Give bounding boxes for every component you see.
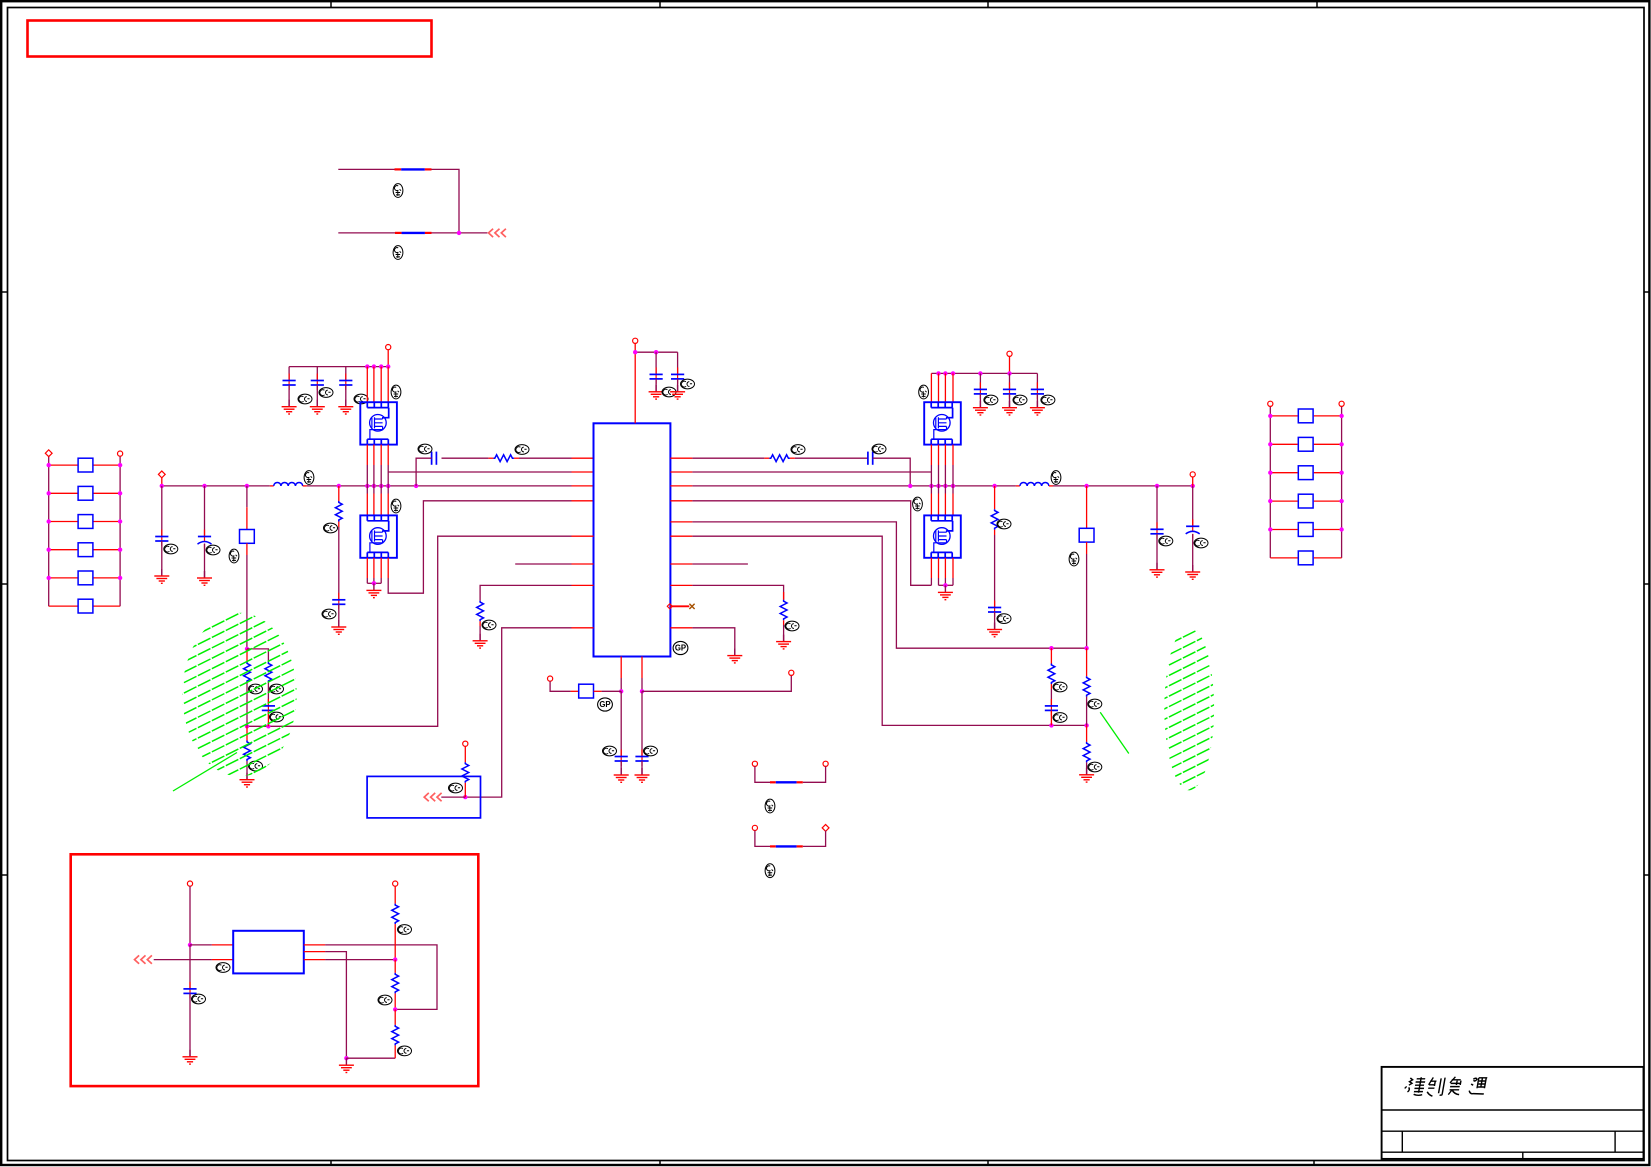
label C7 [1053, 713, 1067, 723]
title block outer box [1382, 1067, 1644, 1159]
wire IC y500.8 phase to Q4 source [692, 501, 931, 586]
wire net top bead circuit upper [338, 168, 394, 170]
capacitor C23 gate rail left [345, 367, 347, 381]
resistor R8 [462, 762, 469, 783]
jumper bracket 2 terminal circle [752, 825, 757, 830]
wire R12 to C14 [442, 457, 489, 459]
title block divider B [1614, 1131, 1616, 1152]
label R5 [1088, 762, 1102, 772]
label Q2 [391, 499, 401, 513]
left ladder junction dots row 5 [47, 576, 51, 580]
highlight ellipse left (green hatch) [170, 422, 310, 856]
label Q4 [913, 497, 923, 511]
wire Q1 pin4 to IC pin (y472) [388, 471, 571, 473]
label FB2 [393, 246, 403, 260]
wire IC y536.2 down-right net [692, 536, 1086, 725]
pin stub IC left y536.2 [572, 535, 594, 537]
wires Q1 bottom to Q2 top verticals [366, 445, 368, 465]
wire R16 to ground node [394, 1045, 396, 1058]
terminal circle VCC above IC [633, 338, 638, 343]
wire IC left y627.8 to off-page [465, 628, 571, 797]
ground C21 [282, 400, 297, 414]
frame zone tick top 2 [659, 1, 661, 7]
wire C8 to net [267, 710, 269, 726]
terminal circle sense left [548, 676, 553, 681]
label R8 [449, 783, 463, 793]
left ladder junction dots row 1 [47, 463, 51, 467]
wire C3 to right bus junction [873, 458, 911, 486]
off-page connector chevrons bottom-left [424, 793, 441, 801]
frame zone tick left 2 [1, 583, 7, 585]
label R3 [1053, 682, 1067, 692]
right ladder row 5 wire [1270, 529, 1297, 531]
label R10 [270, 684, 284, 694]
label FB3 [765, 799, 775, 813]
junction top bead circuit [457, 231, 461, 235]
wire terminal to R8 [464, 746, 466, 762]
ground tie bar Q4 [939, 584, 954, 586]
terminal circle gate-driver rail right [1007, 351, 1012, 356]
off-page group box (blue) [367, 776, 480, 818]
wire VIN down [189, 886, 191, 945]
terminal circle sense right [789, 670, 794, 675]
ground Q2 [366, 583, 381, 597]
left ladder junction dots row 2 [47, 491, 51, 495]
wire F1 down to divider [246, 555, 248, 649]
label C1 [662, 387, 676, 397]
ground pin y627.8 [727, 649, 742, 663]
wire right bus segment 1 [692, 485, 1016, 487]
wire pin1 to C9 [620, 691, 622, 756]
junction divider 2 [393, 1007, 397, 1011]
frame zone tick right 2 [1644, 583, 1650, 585]
resistor R14 [392, 904, 399, 925]
capacitor C8 [267, 699, 269, 710]
pin stub IC right y458 [670, 457, 692, 459]
wires Q2 bottom pins to ground tie [366, 558, 368, 578]
right ladder component box 3 [1298, 466, 1313, 480]
wire terminal to VCC node [634, 343, 636, 352]
label R12 [515, 445, 529, 455]
wire Q4 source pin1 down to phase [930, 558, 932, 578]
terminal circle VIN regulator [187, 881, 192, 886]
resistor R13 divider to ground [246, 726, 248, 740]
pin stub IC right y564 dangling [670, 563, 692, 565]
resistor R1 series right [764, 457, 769, 459]
label C14 [418, 444, 432, 454]
wire IC left y585.4 to R7 [480, 585, 571, 600]
ground Q4 [938, 585, 953, 599]
wire R5 to ground [1086, 762, 1088, 774]
left ladder row 3 wire [49, 521, 78, 523]
junction divider mid [393, 957, 397, 961]
inductor L2 right bus [1016, 485, 1020, 487]
pin stub IC right y521.9 [670, 521, 692, 523]
resistor R7 to ground [477, 601, 484, 622]
right ladder rail A [1269, 404, 1271, 558]
pin stub IC right y500.8 [670, 500, 692, 502]
wire terminal to left bus [161, 477, 163, 486]
wire Q1 pin4 vertical and gate branch to IC [387, 445, 389, 465]
label R16 [398, 1046, 412, 1056]
label FB1 [393, 184, 403, 198]
right ladder row 6 wire [1270, 557, 1297, 559]
left ladder component box 4 [78, 543, 93, 557]
label C12 [206, 545, 220, 555]
junction dots gate rail right [936, 371, 940, 375]
off-page connector chevrons top [489, 229, 506, 237]
inductor L1 left bus [270, 485, 274, 487]
terminal circle gate-driver rail left [386, 345, 391, 350]
wire divider right branch top [247, 649, 268, 662]
wire U2 out pin2 to ground node [304, 951, 325, 953]
pin stub IC right y536.2 [670, 535, 692, 537]
wire left bus segment 1 [162, 485, 270, 487]
wire C7 to net [1050, 710, 1052, 725]
ferrite bead FB1 [395, 168, 402, 170]
terminal circle divider top [393, 881, 398, 886]
transistor Q1 upper-left MOSFET [360, 402, 397, 444]
ground C15 [183, 1050, 198, 1064]
label GP below F3 [598, 698, 613, 711]
right ladder junction dots row 1 [1268, 414, 1272, 418]
frame zone tick left 1 [1, 291, 7, 293]
wires rail to Q1 top pins [366, 367, 368, 403]
left ladder row 1 wire [49, 464, 78, 466]
pin stub IC left y627.8 [572, 627, 594, 629]
wire C14 to left bus junction [416, 458, 432, 486]
IC bottom pin 2 wire [641, 657, 643, 679]
resistor R10 divider right branch [265, 662, 272, 683]
right ladder component box 4 [1298, 494, 1313, 508]
svg-text:GP: GP [599, 700, 610, 709]
wire VIN node to C15 [189, 945, 191, 989]
title block bottom strip divider [1522, 1152, 1524, 1159]
junction dots y648 net [1049, 646, 1053, 650]
ground C4 [987, 623, 1002, 637]
IC top pin wire to VCC [634, 352, 636, 423]
resistor R5 to ground [1086, 725, 1088, 742]
wire R11 to C13 [338, 527, 340, 600]
terminal circle R8 pull-up [463, 741, 468, 746]
capacitor C31 gate rail right [979, 373, 981, 389]
wire F3 to pin1 junction [602, 690, 622, 692]
label C22 [319, 388, 333, 398]
pin stub IC right y627.8 [670, 627, 692, 629]
wire terminal to rail left [387, 350, 389, 367]
frame zone tick right 1 [1644, 291, 1650, 293]
transistor Q4 lower-right MOSFET [924, 515, 961, 557]
fuse/bead F2 right bus branch [1086, 486, 1088, 528]
capacitor C5 right bus [1156, 486, 1158, 529]
right ladder component box 5 [1298, 523, 1313, 537]
label GP inside IC bottom-right [673, 641, 688, 654]
wire IC to R12 [519, 457, 572, 459]
ground C31 [973, 401, 988, 415]
fuse/bead F3 [571, 690, 579, 692]
junction dots VCC node [633, 350, 637, 354]
label R4 [1088, 699, 1102, 709]
left ladder rail A [48, 453, 50, 606]
frame zone tick top 1 [330, 1, 332, 7]
frame zone tick left 3 [1, 874, 7, 876]
ground R7 [473, 634, 488, 648]
resistor R6 to ground [783, 592, 785, 600]
wire left bus segment 2 [307, 485, 572, 487]
wire IC y472 to Q3 vertical [692, 471, 931, 473]
highlight ellipse right (green hatch) [1155, 543, 1225, 838]
junction IC bottom pin1 [619, 689, 623, 693]
capacitor C4 [994, 601, 996, 612]
title block line 2 [1382, 1130, 1644, 1132]
frame zone tick top 4 [1316, 1, 1318, 7]
wire R14 to mid junction [394, 924, 396, 960]
label C6 [1194, 538, 1208, 548]
capacitor C10 [641, 750, 643, 761]
label C15 [192, 994, 206, 1004]
ground C23 [338, 400, 353, 414]
label C9 [603, 746, 617, 756]
capacitor C3 series right [867, 452, 869, 465]
left ladder row 6 wire [49, 605, 78, 607]
junction ground node U2 [344, 1056, 348, 1060]
capacitor C12 left bus polarized [204, 486, 206, 537]
junction dots gate rail left [365, 364, 369, 368]
junction VIN node [188, 943, 192, 947]
terminal circle right bus VCC [1190, 472, 1195, 477]
left ladder component box 2 [78, 486, 93, 500]
label Q3 [919, 385, 929, 399]
ground C33 [1030, 401, 1045, 415]
capacitor C1 VCC [655, 352, 657, 374]
ground C1 [649, 385, 664, 399]
wire IC y521.9 down-right net [692, 522, 1086, 648]
wire R7 to ground [479, 626, 481, 641]
label R9 [249, 684, 263, 694]
terminal circle right ladder rail B [1339, 401, 1344, 406]
ground C32 [1002, 401, 1017, 415]
pin stub IC left y585.4 [572, 584, 594, 586]
junction IC bottom pin2 [640, 689, 644, 693]
junction dots right bus [908, 484, 912, 488]
green pointer line left [173, 753, 237, 792]
label R7 [482, 620, 496, 630]
capacitor C22 gate rail left [316, 367, 318, 381]
frame zone tick bottom 1 [330, 1161, 332, 1166]
right ladder component box 6 [1298, 551, 1313, 565]
wire R2 to C4 [994, 535, 996, 608]
IC U1 main controller body [594, 423, 671, 656]
label C10 [644, 746, 658, 756]
wire gate rail left [289, 366, 388, 368]
left ladder row 5 wire [49, 577, 78, 579]
frame zone tick bottom 2 [659, 1161, 661, 1166]
terminal circle left ladder rail B [118, 451, 123, 456]
wire Q2 source pin4 S-bend to IC pin (y500.8) [387, 558, 389, 578]
resistor R3 between nets [1050, 648, 1052, 663]
wire right bus segment 2 [1053, 485, 1193, 487]
junction off-page net [463, 795, 467, 799]
resistor R12 series left [514, 457, 519, 459]
wire R8 to junction [464, 783, 466, 797]
left ladder junction dots row 3 [47, 519, 51, 523]
fuse/bead F1 left bus branch [246, 486, 248, 507]
wire chevrons to U2 pin2 [135, 955, 152, 963]
ground C10 [635, 768, 650, 782]
label R6 [785, 621, 799, 631]
ground C13 [331, 620, 346, 634]
wire U2 out pin1 to feedback top [304, 944, 325, 946]
wire IC left y536.2 long net to divider [247, 536, 572, 726]
terminal diamond left ladder rail A [45, 450, 52, 457]
pin stub IC right y585.4 [670, 584, 692, 586]
label C11 [164, 544, 178, 554]
regulator section box (red) [71, 854, 479, 1086]
junction Q2 ground tie [372, 581, 376, 585]
junction dots y726 net [266, 724, 270, 728]
capacitor C32 gate rail right [1009, 373, 1011, 389]
left ladder junction dots row 4 [47, 548, 51, 552]
right ladder junction dots row 4 [1268, 499, 1272, 503]
note box (empty red rectangle top-left) [28, 21, 432, 57]
wire gate rail right [931, 372, 1037, 374]
terminal diamond left bus VCC [158, 471, 165, 478]
label C4 [997, 614, 1011, 624]
wire R6 to ground [783, 625, 785, 642]
title block line 3 [1382, 1151, 1644, 1153]
wires Q3 bottom to Q4 top verticals [930, 445, 932, 465]
left ladder component box 3 [78, 515, 93, 529]
left ladder component box 5 [78, 571, 93, 585]
pin stub IC right bus y486 [670, 485, 692, 487]
ground C11 [154, 569, 169, 583]
wire VIN node to U2 pin1 [190, 944, 212, 946]
wire IC to R1 right [692, 457, 764, 459]
ferrite bead FB3 [770, 781, 776, 783]
wire net top bead circuit lower right [432, 232, 488, 234]
wire R10 to C8 [267, 683, 269, 706]
label R13 [249, 761, 263, 771]
green pointer line right [1100, 712, 1129, 753]
resistor R16 [394, 1009, 396, 1025]
transistor Q3 upper-right MOSFET [924, 402, 961, 444]
junction Q4 ground tie [943, 583, 947, 587]
frame zone tick bottom 3 [987, 1161, 989, 1166]
terminal circle right ladder rail A [1268, 401, 1273, 406]
wire IC y627.8 to ground [692, 628, 734, 656]
label C21 [298, 394, 312, 404]
capacitor C15 [189, 982, 191, 993]
wire U2 out pin3 to divider mid [304, 959, 325, 961]
wire net top bead circuit lower [338, 232, 395, 234]
left ladder rail B [119, 454, 121, 607]
label L1 [304, 471, 314, 485]
junction divider top [245, 647, 249, 651]
label C33 [1041, 395, 1055, 405]
title block divider A [1401, 1131, 1403, 1152]
wire terminal to rail right [1009, 356, 1011, 373]
label C13 [322, 609, 336, 619]
ground R6 [776, 635, 791, 649]
resistor R11 left bus to ground chain [338, 486, 340, 501]
frame zone tick right 3 [1644, 874, 1650, 876]
left ladder component box 6 [78, 599, 93, 613]
label R2 [997, 519, 1011, 529]
label C5 [1159, 536, 1173, 546]
ground C5 [1150, 563, 1165, 577]
capacitor C21 gate rail left [288, 367, 290, 381]
capacitor C7 [1050, 699, 1052, 710]
wire junction to chevrons [441, 796, 465, 798]
capacitor C2 VCC [677, 352, 679, 374]
pin stub IC right y472 [670, 471, 692, 473]
label FB4 [765, 864, 775, 878]
capacitor C13 [338, 593, 340, 604]
right ladder junction dots row 5 [1268, 527, 1272, 531]
ground C22 [310, 400, 325, 414]
label F2 [1069, 552, 1079, 566]
wire R15 to junction 2 [394, 993, 396, 1009]
right ladder row 4 wire [1270, 500, 1297, 502]
jumper bracket 2 wires [755, 831, 770, 847]
right ladder component box 1 [1298, 409, 1313, 423]
wire R1 to C3 [795, 457, 868, 459]
wire IC y585.4 to R6 [692, 585, 783, 599]
right ladder row 3 wire [1270, 472, 1297, 474]
wire ground node to divider bottom [346, 1057, 395, 1059]
wire F2 down [1086, 554, 1088, 648]
label Q1 [391, 385, 401, 399]
ground C2 [670, 385, 685, 399]
ferrite bead FB4 [770, 845, 776, 847]
company logo text (CJK strokes) [1403, 1077, 1487, 1096]
ground tie bar Q2 [367, 582, 381, 584]
jumper bracket 1 wires [755, 766, 770, 782]
label U2 [216, 963, 230, 973]
junction dots y725 net [1049, 723, 1053, 727]
ground R5 [1079, 768, 1094, 782]
capacitor C11 left bus [161, 486, 163, 537]
capacitor C6 right bus polarized [1192, 486, 1194, 526]
wire terminal down and right to F3 [550, 681, 571, 691]
jumper bracket 1 terminals [752, 761, 757, 766]
right ladder row 2 wire [1270, 443, 1297, 445]
frame zone tick bottom 4 [1313, 1161, 1315, 1166]
jumper bracket 2 terminal diamond [822, 825, 829, 832]
label R15 [378, 995, 392, 1005]
right ladder rail B [1341, 404, 1343, 558]
right ladder component box 2 [1298, 437, 1313, 451]
label C23 [354, 394, 368, 404]
ground U2 [339, 1058, 354, 1072]
label C32 [1013, 395, 1027, 405]
wire R13 to ground [246, 761, 248, 780]
title block line 1 [1382, 1109, 1644, 1111]
left ladder row 4 wire [49, 549, 78, 551]
ground R13 [240, 773, 255, 787]
label R1 [791, 445, 805, 455]
capacitor C33 gate rail right [1036, 373, 1038, 389]
capacitor C9 [620, 750, 622, 761]
wire pin2 junction to terminal right [642, 675, 791, 691]
pin stub IC left y458 [572, 457, 594, 459]
resistor R4 on F2 branch [1086, 648, 1088, 676]
capacitor C14 series left [431, 452, 433, 465]
wire pin2 to C10 [641, 691, 643, 756]
label C8 [270, 712, 284, 722]
ground C9 [614, 768, 629, 782]
wire R3 to C7 [1050, 689, 1052, 706]
